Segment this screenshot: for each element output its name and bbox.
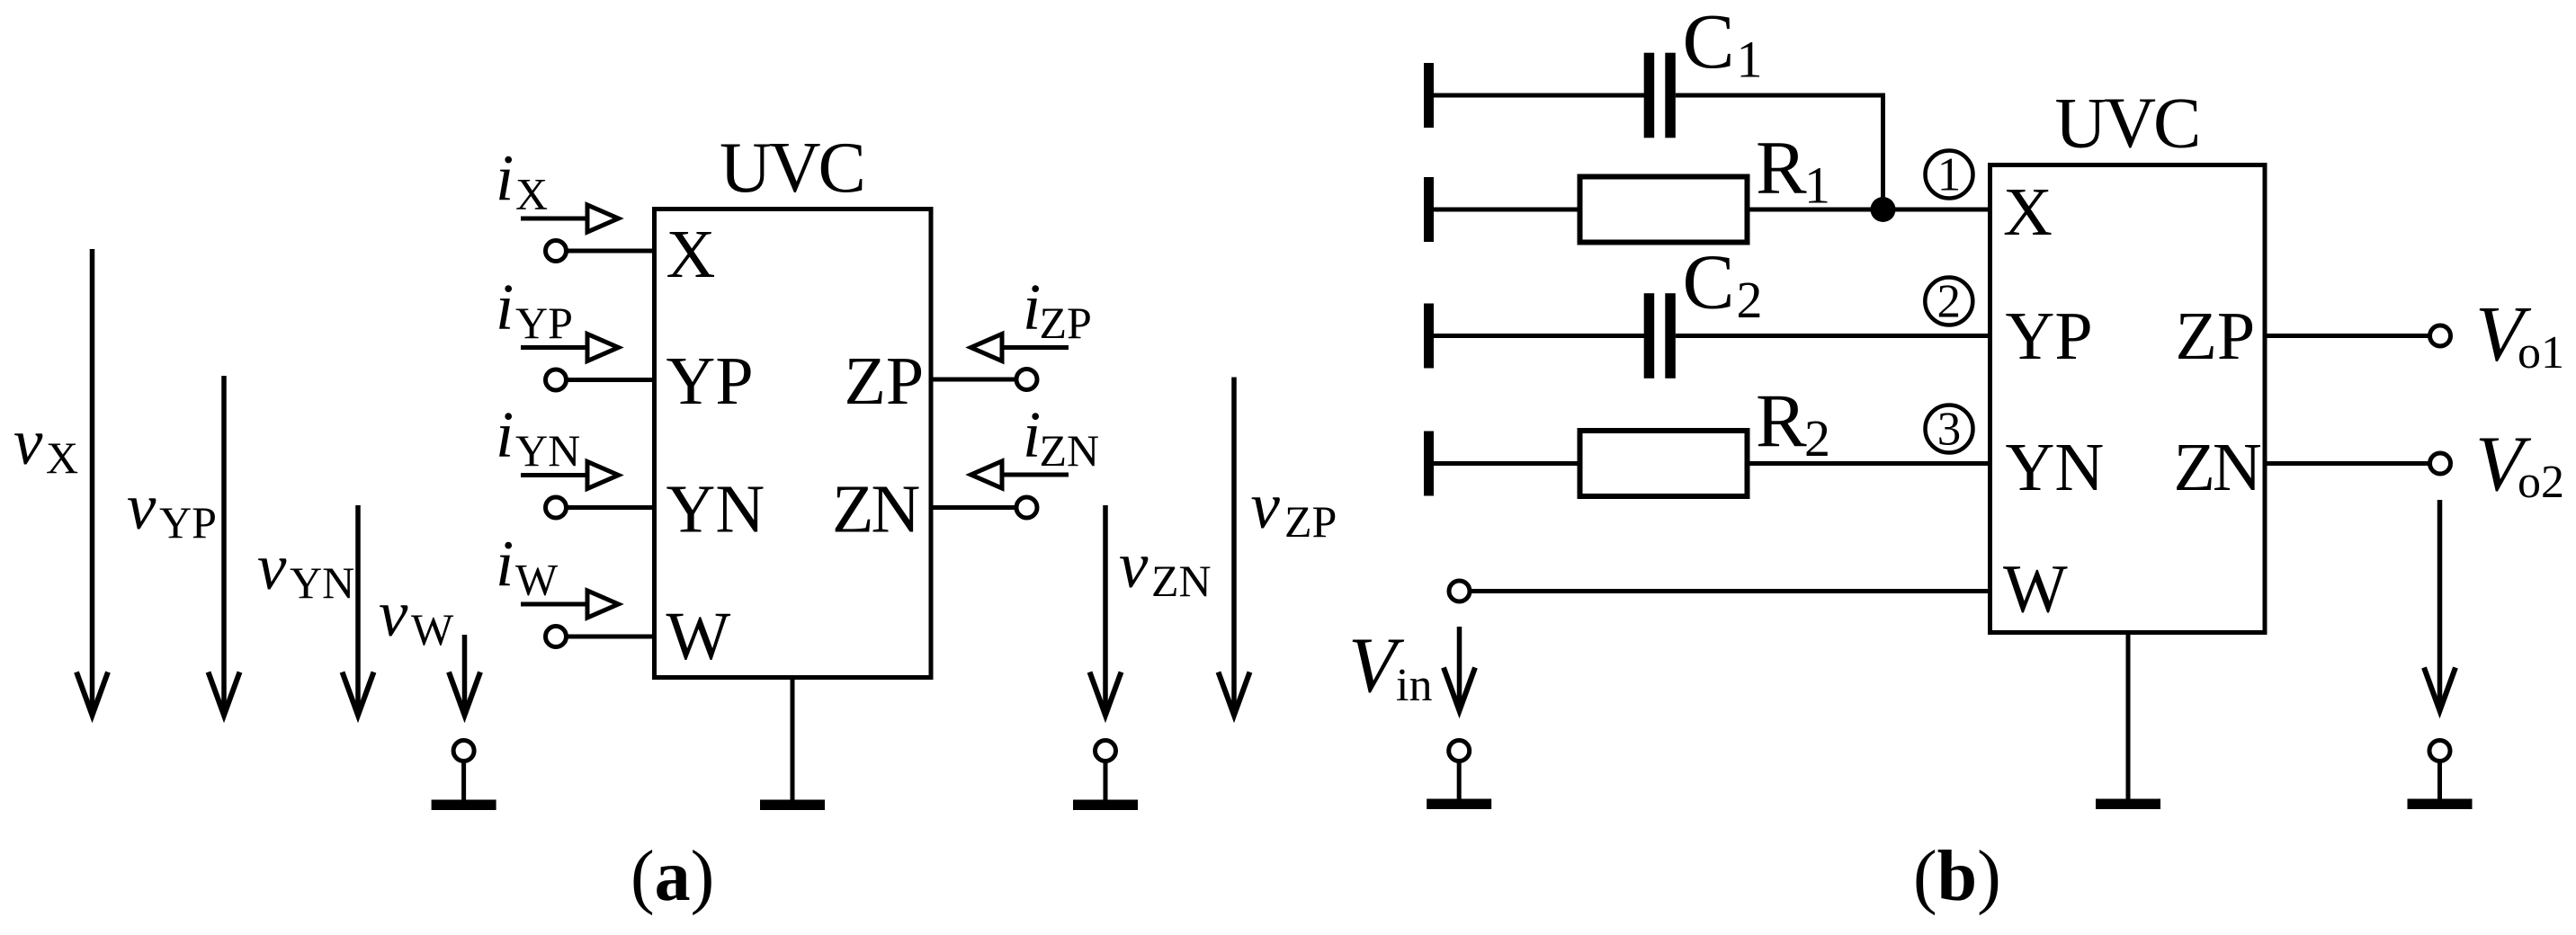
- label i_YP: [496, 271, 573, 349]
- svg-text:i: i: [496, 398, 514, 471]
- wire stub to R2: [1434, 461, 1580, 466]
- svg-text:i: i: [1023, 398, 1041, 471]
- pin ZN terminal and wire (a): [931, 497, 1037, 518]
- svg-text:C: C: [1683, 238, 1735, 325]
- svg-text:W: W: [515, 555, 559, 605]
- input stub (R1 row): [1424, 177, 1434, 242]
- wire W terminal to box: [1470, 589, 1990, 593]
- svg-text:YP: YP: [515, 298, 573, 348]
- resistor R1: [1580, 177, 1748, 243]
- svg-text:YN: YN: [2006, 430, 2105, 505]
- current arrow i_W: [521, 591, 619, 618]
- svg-text:W: W: [666, 599, 731, 674]
- svg-text:(b): (b): [1913, 837, 2001, 916]
- voltage arrow V_in: [1444, 627, 1475, 711]
- svg-text:(a): (a): [631, 837, 714, 916]
- svg-text:C: C: [1683, 0, 1735, 85]
- svg-text:1: 1: [1737, 31, 1763, 89]
- svg-text:in: in: [1396, 660, 1432, 711]
- wire stub to C1: [1434, 93, 1644, 98]
- svg-text:ZN: ZN: [832, 472, 919, 548]
- pin YN terminal and wire: [546, 497, 655, 518]
- UVC box (a): [655, 209, 932, 678]
- input stub (R2 row): [1424, 432, 1434, 496]
- input terminal W (b): [1449, 581, 1470, 601]
- wire R2 to box YN pin: [1750, 461, 1990, 466]
- svg-text:R: R: [1756, 379, 1807, 464]
- resistor R2: [1580, 431, 1748, 496]
- svg-text:2: 2: [1737, 271, 1763, 329]
- wire ZN output: [2265, 461, 2430, 466]
- voltage arrow v_YN: [343, 505, 374, 716]
- svg-text:v: v: [13, 405, 43, 478]
- svg-text:YN: YN: [290, 557, 354, 608]
- ground below box (a): [760, 800, 825, 811]
- svg-text:X: X: [2003, 174, 2053, 250]
- pin YP terminal and wire: [546, 370, 655, 390]
- voltage arrow v_X: [76, 249, 108, 716]
- node label 3 (circled): [1926, 404, 1973, 456]
- ground stem from box (b): [2126, 633, 2131, 799]
- label v_ZN: [1119, 529, 1212, 606]
- voltage arrow below V_o2: [2424, 500, 2455, 711]
- label V_in: [1348, 622, 1432, 711]
- wire C1 to node 1 (corner): [1676, 95, 1883, 209]
- svg-text:ZN: ZN: [1040, 425, 1100, 476]
- label i_ZN: [1023, 398, 1099, 476]
- svg-text:i: i: [1023, 271, 1041, 343]
- svg-text:2: 2: [1937, 276, 1962, 328]
- svg-text:o2: o2: [2518, 457, 2564, 508]
- voltage arrow v_ZN: [1090, 505, 1122, 716]
- current arrow i_YP: [521, 334, 619, 361]
- svg-text:ZP: ZP: [2176, 298, 2256, 374]
- current arrow i_ZN: [971, 461, 1069, 488]
- current arrow i_ZP: [971, 334, 1069, 361]
- wire stub to R1: [1434, 208, 1580, 212]
- svg-text:ZN: ZN: [2174, 430, 2261, 505]
- svg-text:ZN: ZN: [1151, 556, 1212, 606]
- svg-text:o1: o1: [2518, 327, 2564, 378]
- svg-text:X: X: [46, 432, 78, 483]
- svg-text:i: i: [496, 141, 514, 214]
- voltage arrow v_ZP: [1219, 378, 1250, 716]
- wire C2 to box YP pin: [1676, 334, 1990, 338]
- label i_ZP: [1023, 271, 1092, 349]
- label i_X: [496, 141, 548, 219]
- ground below V_o2 arrow: [2408, 741, 2473, 810]
- svg-text:2: 2: [1804, 409, 1830, 467]
- svg-text:YN: YN: [515, 425, 580, 476]
- pin X terminal and wire: [546, 241, 655, 262]
- label C2: [1683, 238, 1763, 330]
- label i_YN: [496, 398, 580, 476]
- voltage arrow v_YP: [209, 376, 240, 716]
- svg-text:W: W: [2003, 552, 2068, 628]
- wire R1 to box X pin: [1750, 208, 1990, 212]
- voltage arrow v_W: [449, 635, 480, 716]
- svg-text:X: X: [666, 217, 716, 292]
- input stub (C1 row): [1424, 63, 1434, 128]
- svg-text:v: v: [1251, 469, 1281, 542]
- input stub (C2 row): [1424, 304, 1434, 369]
- svg-text:UVC: UVC: [2055, 85, 2199, 164]
- label v_YN: [257, 530, 354, 608]
- capacitor C2: [1644, 293, 1676, 378]
- current arrow i_X: [521, 205, 619, 232]
- svg-text:i: i: [496, 271, 514, 343]
- label V_o1: [2475, 291, 2564, 379]
- svg-text:v: v: [1119, 529, 1149, 601]
- svg-text:R: R: [1756, 126, 1807, 210]
- label v_W: [379, 577, 454, 654]
- svg-text:v: v: [379, 577, 408, 650]
- node label 1 (circled): [1926, 149, 1973, 201]
- ground stem from box (a): [791, 678, 795, 800]
- svg-text:YP: YP: [666, 343, 754, 419]
- label v_X: [13, 405, 78, 483]
- terminal ZP output: [2430, 325, 2451, 346]
- svg-text:W: W: [411, 604, 454, 654]
- UVC box (b): [1990, 165, 2266, 633]
- svg-text:YP: YP: [159, 497, 217, 548]
- svg-text:i: i: [496, 527, 514, 600]
- label V_o2: [2475, 421, 2564, 508]
- svg-text:ZP: ZP: [1040, 298, 1092, 348]
- ground below V_in: [1427, 741, 1491, 810]
- label C1: [1683, 0, 1763, 89]
- capacitor C1: [1644, 53, 1676, 138]
- label v_YP: [127, 470, 217, 548]
- svg-text:v: v: [127, 470, 157, 543]
- ground below v_ZN: [1073, 741, 1138, 811]
- svg-text:v: v: [257, 530, 287, 603]
- label R1: [1756, 126, 1830, 215]
- wire stub to C2: [1434, 334, 1644, 338]
- wire ZP output: [2265, 334, 2430, 338]
- svg-text:UVC: UVC: [720, 129, 863, 208]
- current arrow i_YN: [521, 462, 619, 489]
- svg-text:1: 1: [1937, 149, 1962, 201]
- pin W terminal and wire: [546, 627, 655, 647]
- label v_ZP: [1251, 469, 1337, 547]
- svg-text:YP: YP: [2006, 298, 2093, 374]
- svg-text:3: 3: [1937, 404, 1962, 456]
- junction node dot: [1871, 197, 1896, 222]
- label R2: [1756, 379, 1830, 468]
- ground below v_W: [432, 741, 496, 811]
- label i_W: [496, 527, 559, 605]
- node label 2 (circled): [1925, 276, 1972, 328]
- pin ZP terminal and wire (a): [931, 370, 1037, 390]
- svg-text:YN: YN: [666, 472, 765, 548]
- terminal ZN output: [2430, 453, 2451, 474]
- svg-text:ZP: ZP: [845, 343, 925, 419]
- ground below box (b): [2096, 799, 2160, 810]
- svg-text:ZP: ZP: [1284, 496, 1337, 547]
- svg-text:X: X: [515, 169, 548, 219]
- svg-text:1: 1: [1804, 156, 1830, 215]
